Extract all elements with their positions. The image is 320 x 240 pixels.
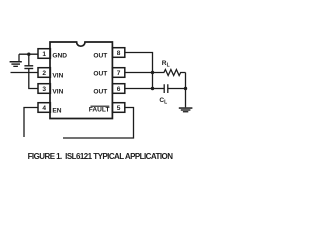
svg-text:FIGURE 1. ISL6121 TYPICAL APPL: FIGURE 1. ISL6121 TYPICAL APPLICATION [28, 152, 174, 161]
svg-text:OUT: OUT [93, 70, 107, 77]
capacitor CL plates [164, 84, 168, 93]
svg-text:FAULT: FAULT [89, 107, 110, 114]
IC ISL6121 body [50, 42, 112, 119]
pin 7 [112, 68, 124, 78]
pin 4 [38, 103, 50, 113]
pin 5 [112, 103, 124, 113]
pin 2 [38, 68, 50, 78]
wire pin8 [125, 53, 153, 89]
svg-text:4: 4 [42, 105, 46, 112]
wire RL to ground [185, 73, 187, 89]
svg-text:VIN: VIN [52, 88, 63, 95]
wire pin4 EN stub [24, 108, 38, 138]
wire pin3 to capacitor [29, 68, 38, 88]
svg-text:VIN: VIN [52, 72, 63, 79]
svg-text:7: 7 [117, 70, 121, 77]
FAULT overline [91, 105, 110, 107]
node junction pin1/C1 [27, 53, 30, 56]
svg-text:OUT: OUT [93, 52, 107, 59]
capacitor C1 (VIN bypass) plates [24, 65, 33, 66]
svg-text:6: 6 [117, 86, 121, 93]
capacitor CL right lead [168, 88, 186, 90]
capacitor CL left lead [153, 88, 165, 90]
node junction OUT/RL [151, 71, 154, 74]
svg-text:3: 3 [42, 86, 46, 93]
wire pin6 [125, 88, 153, 90]
capacitor top lead [28, 54, 30, 65]
ground right [179, 107, 193, 109]
pin 3 [38, 84, 50, 94]
svg-text:2: 2 [42, 70, 46, 77]
pin 1 [38, 49, 50, 59]
ground left stub [18, 54, 20, 61]
wire pin1 to ground [19, 53, 38, 55]
wire pin7 [125, 72, 153, 74]
wire to right ground [185, 89, 187, 108]
svg-text:CL: CL [159, 97, 167, 106]
svg-text:8: 8 [117, 50, 121, 57]
pin 8 [112, 48, 124, 58]
svg-text:GND: GND [52, 52, 67, 59]
ground left [10, 61, 22, 63]
svg-text:OUT: OUT [93, 88, 107, 95]
wire pin2 VIN input [11, 72, 39, 74]
node junction OUT/CL [151, 87, 154, 90]
svg-text:RL: RL [162, 60, 170, 69]
svg-text:EN: EN [52, 107, 61, 114]
wire pin5 FAULT [63, 108, 134, 139]
svg-text:5: 5 [117, 105, 121, 112]
node junction RL/CL/ground [184, 87, 187, 90]
pin 6 [112, 84, 124, 94]
svg-text:1: 1 [42, 51, 46, 58]
resistor RL [153, 70, 186, 76]
